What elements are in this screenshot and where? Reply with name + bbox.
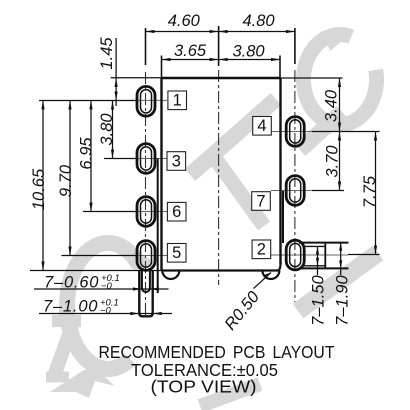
svg-text:4.80: 4.80: [242, 12, 275, 30]
svg-text:4.60: 4.60: [168, 12, 201, 30]
svg-text:3.80: 3.80: [232, 43, 265, 61]
svg-text:10.65: 10.65: [30, 168, 48, 210]
svg-text:3.80: 3.80: [98, 113, 116, 146]
svg-text:−0: −0: [100, 306, 112, 317]
svg-text:6: 6: [172, 203, 181, 221]
svg-text:3.65: 3.65: [174, 42, 207, 60]
svg-text:7–1.00: 7–1.00: [43, 298, 98, 316]
svg-text:3: 3: [172, 152, 181, 170]
svg-text:7–1.50: 7–1.50: [310, 275, 328, 326]
svg-text:7.75: 7.75: [361, 175, 379, 208]
svg-text:(TOP VIEW): (TOP VIEW): [151, 377, 257, 397]
svg-text:7–1.90: 7–1.90: [334, 275, 352, 326]
svg-text:3.40: 3.40: [323, 89, 341, 122]
svg-text:1: 1: [173, 92, 182, 110]
svg-text:−0: −0: [101, 281, 113, 292]
svg-text:2: 2: [257, 241, 266, 259]
svg-text:6.95: 6.95: [78, 137, 96, 170]
svg-text:7–0.60: 7–0.60: [44, 274, 99, 292]
svg-text:7: 7: [256, 192, 265, 210]
svg-text:9.70: 9.70: [57, 164, 75, 197]
svg-text:4: 4: [257, 117, 266, 135]
svg-text:1.45: 1.45: [98, 37, 116, 70]
svg-text:5: 5: [172, 244, 181, 262]
svg-text:3.70: 3.70: [324, 145, 342, 178]
svg-text:RECOMMENDED PCB LAYOUT: RECOMMENDED PCB LAYOUT: [99, 342, 335, 362]
